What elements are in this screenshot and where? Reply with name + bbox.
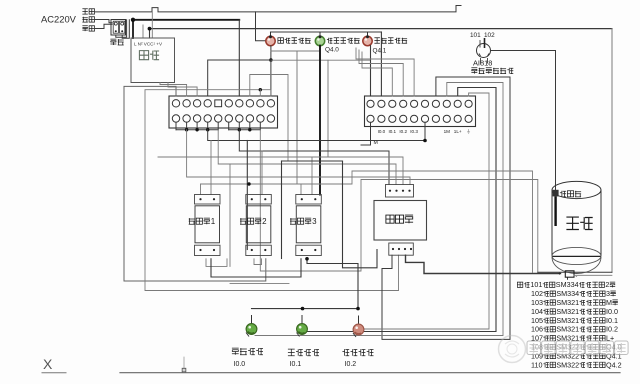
relay KA1 bottom terminal box: [195, 245, 221, 255]
label AI818: [473, 59, 492, 68]
wire strip1 drop x176: [175, 122, 177, 130]
wire breaker out 2: [122, 20, 129, 38]
wire strip1 drop x207.7: [207, 122, 209, 130]
signature underline: [42, 372, 66, 374]
wire ground top run: [96, 6, 462, 12]
wire KA1 to KA3 bottom: [211, 259, 301, 277]
svg-text:SM322: SM322: [556, 360, 579, 369]
power supply terminal labels: [134, 42, 163, 47]
note line 7: [531, 334, 614, 343]
wire KA3 to button bus: [307, 259, 358, 309]
terminal strip XT1 body: [169, 96, 278, 128]
wire y51 link to run lamp: [271, 50, 320, 52]
label 启动按钮: [232, 348, 263, 355]
node KA3 bottom: [305, 257, 309, 261]
node t9 riser junction: [259, 88, 262, 91]
route strip2-t9 to stop button: [306, 88, 496, 332]
bottom border tick: [183, 357, 185, 373]
wire strip1 dropB x228.7: [228, 122, 230, 130]
route I0.2 strip2-t7: [382, 77, 510, 339]
svg-text:1L+: 1L+: [454, 129, 462, 134]
note line 1: [517, 280, 615, 289]
indicator lamp HL1 power (red): [266, 32, 275, 46]
note line 5: [531, 316, 618, 325]
svg-text:I0.0: I0.0: [606, 307, 618, 316]
relay KA2 top terminal box: [246, 195, 271, 205]
relay KA1 body: [195, 206, 220, 243]
wire relay2 bottom small loop: [254, 259, 262, 265]
svg-text:AC220V: AC220V: [41, 14, 77, 25]
wire node down to strip1 t10: [270, 60, 272, 96]
boiler enclosure bottom: [538, 271, 612, 273]
heater element: [558, 271, 578, 280]
svg-text:SM321: SM321: [556, 307, 579, 316]
label 温度变送仪表: [471, 68, 513, 74]
labels 101 102: [470, 32, 495, 39]
terminal strip XT2 top row terminals: [367, 100, 472, 107]
note line 2: [531, 289, 616, 298]
svg-text:103: 103: [531, 298, 543, 307]
wire KA1 small loop: [206, 259, 227, 267]
relay KA2 bottom terminal dots: [251, 249, 267, 251]
svg-text:SM334: SM334: [556, 289, 579, 298]
node strip1 busB x249.8: [248, 128, 251, 131]
note line 4: [531, 307, 618, 316]
note line 9: [531, 351, 622, 360]
label I0.0: [234, 361, 246, 368]
wire strip1 bus A: [176, 129, 218, 131]
svg-text:102: 102: [484, 32, 495, 39]
svg-text:102: 102: [531, 289, 543, 298]
svg-text:1: 1: [211, 217, 216, 226]
svg-text:I0.2: I0.2: [606, 325, 618, 334]
node H1 t6: [423, 139, 427, 143]
svg-text:I0.2: I0.2: [345, 361, 357, 368]
svg-text:⏚: ⏚: [466, 128, 471, 134]
svg-text:SM334: SM334: [556, 280, 579, 289]
label 锅炉: [566, 217, 592, 229]
svg-text:+: +: [558, 272, 561, 278]
note line 10: [531, 360, 622, 369]
wire H6 coil bus: [201, 171, 533, 272]
note line 3: [531, 298, 618, 307]
svg-text:Q4.2: Q4.2: [606, 360, 622, 369]
wire big loop B (t10): [145, 90, 399, 291]
node neutral junction: [148, 27, 152, 31]
svg-text:I0.1: I0.1: [606, 316, 618, 325]
label Q4.1: [373, 48, 387, 55]
wire lamp top bus: [271, 31, 382, 33]
controller bottom terminal dots: [392, 248, 412, 250]
svg-text:X: X: [43, 356, 53, 372]
wire controller to heater: [406, 255, 561, 273]
relay KA2 bottom terminal box: [246, 245, 271, 255]
label power supply 电源: [139, 51, 159, 60]
svg-text:106: 106: [531, 325, 543, 334]
relay KA2 top terminal dots: [251, 198, 267, 200]
svg-text:SM321: SM321: [556, 325, 579, 334]
node strip1 busA x186.6: [185, 128, 188, 131]
wire power lamp bottom: [270, 46, 272, 60]
wire t9 riser: [259, 90, 261, 96]
relay KA2 body: [246, 206, 270, 243]
node strip1 busA x207.7: [206, 128, 209, 131]
label Q4.0: [325, 47, 339, 54]
wire dark L1 vertical: [281, 161, 283, 259]
route stub to strip2 t3: [362, 52, 392, 96]
relay KA1 top terminal dots: [199, 198, 215, 200]
wire strip2 t1 M stub: [361, 122, 371, 145]
wire power +V to strip1 t2: [160, 83, 187, 97]
wire dark L2 route: [343, 161, 378, 268]
node H6 relay2: [247, 182, 250, 185]
breaker pole 2: [120, 21, 125, 33]
svg-text:101: 101: [470, 32, 481, 39]
node power lamp neutral: [269, 58, 273, 62]
wire H1 busA to strip2 t6: [208, 122, 425, 140]
controller top terminal dots: [389, 190, 411, 192]
svg-text:-: -: [576, 274, 578, 280]
route stub to strip2 t4: [359, 50, 403, 96]
terminal strip XT1 top row terminals: [172, 100, 274, 107]
node strip1 busB x239.3: [238, 128, 241, 131]
svg-text:SM321: SM321: [556, 316, 579, 325]
wire live feed to strip1 t7: [238, 20, 240, 96]
label AC220V: [41, 14, 77, 25]
wire H6 drop relay3: [300, 184, 302, 195]
wire H4 drop to relay1 loop: [229, 164, 231, 266]
pushbutton SB1 start (green): [246, 315, 257, 337]
wire dark drop to relay2: [246, 141, 248, 250]
relay KA3 body: [296, 206, 321, 243]
label I0.1: [290, 361, 302, 368]
relay KA3 top terminal dots: [301, 198, 317, 200]
wire live bus into power supply: [132, 20, 134, 38]
pushbutton SB3 reset (red): [353, 316, 364, 338]
note line 8: [531, 343, 622, 352]
wire neutral into power supply: [149, 29, 151, 38]
transducer AI818 circle: [477, 38, 491, 58]
circuit breaker QF body: [111, 20, 126, 36]
label 复位按钮: [342, 349, 373, 356]
svg-text:SM321: SM321: [556, 298, 579, 307]
label 继电器2: [240, 217, 267, 226]
wire heater return to neutral: [574, 274, 612, 276]
label 继电器1: [189, 217, 216, 226]
wire node line extension right: [271, 59, 371, 61]
node button bus reset: [356, 307, 360, 311]
label 报警指示灯: [374, 38, 407, 43]
controller top terminal box: [386, 185, 414, 198]
wire alarm lamp to strip2 t1: [370, 46, 372, 96]
wire stub under relays: [230, 283, 289, 285]
wire strip1 dropB x239.3: [238, 122, 240, 130]
wire breaker out 1: [116, 20, 127, 38]
terminal strip XT2 body: [365, 96, 476, 127]
relay KA3 bottom terminal dots: [301, 249, 317, 251]
note line 6: [531, 325, 618, 334]
label neutral wire 零线: [82, 17, 94, 22]
watermark text: [527, 341, 628, 355]
controller bottom terminal box: [389, 243, 414, 255]
wire live bus horizontal: [133, 19, 239, 21]
wire big loop A (t1): [124, 86, 266, 281]
wire node to strip1 t4 riser: [208, 60, 271, 96]
node live junction: [131, 18, 135, 22]
svg-text:Q4.0: Q4.0: [325, 47, 339, 54]
svg-text:1M: 1M: [444, 129, 451, 134]
wire y51 drop to relay3 feed: [296, 51, 298, 184]
power supply unit box: [131, 38, 175, 83]
signature X: [43, 356, 53, 372]
svg-text:I0.1: I0.1: [388, 129, 396, 134]
relay KA3 top terminal box: [296, 195, 322, 205]
svg-text:110: 110: [531, 360, 542, 369]
thermocouple probe: [553, 190, 559, 226]
svg-text:101: 101: [530, 280, 542, 289]
wire AI818 to thermocouple: [491, 51, 555, 190]
controller body: [374, 201, 427, 241]
svg-text:105: 105: [531, 316, 543, 325]
label 热电偶: [560, 191, 581, 197]
route stub to strip2 t5: [356, 48, 414, 96]
relay KA3 bottom terminal box: [296, 245, 322, 255]
wire strip1 bus B: [229, 129, 261, 131]
wire strip1 t9 long drop to boiler box: [260, 130, 538, 272]
bottom border: [120, 372, 620, 374]
svg-text:2: 2: [605, 280, 609, 289]
wire node line drop x328: [327, 60, 329, 157]
svg-text:AI818: AI818: [473, 59, 492, 68]
wire neutral into breaker: [96, 20, 113, 23]
wire drop to power supply terminal: [142, 25, 144, 38]
svg-text:Q4.1: Q4.1: [373, 48, 387, 55]
wire t8 riser bend to L1: [250, 75, 288, 162]
terminal strip XT1 bottom row terminals: [172, 115, 274, 122]
wire H3 drop relay3: [311, 157, 313, 195]
wire live into breaker: [96, 24, 113, 28]
svg-text:3: 3: [312, 217, 317, 226]
indicator lamp HL2 run (green): [315, 32, 324, 46]
wire H2 busB to controller t1: [239, 130, 389, 185]
node button bus stop: [301, 307, 305, 311]
wire button bus: [252, 308, 359, 310]
svg-text:L N² VCC¹ +V: L N² VCC¹ +V: [134, 42, 163, 47]
svg-text:I0.3: I0.3: [410, 129, 418, 134]
svg-text:M: M: [606, 298, 612, 307]
wire H2 drop relay2: [261, 151, 263, 195]
svg-text:I0.0: I0.0: [234, 361, 246, 368]
svg-text:2: 2: [262, 217, 267, 226]
svg-text:104: 104: [531, 307, 543, 316]
svg-text:I0.0: I0.0: [378, 129, 386, 134]
label M: [374, 140, 378, 146]
wire H1 drop relay1: [210, 141, 212, 195]
transducer leg 1: [480, 58, 482, 63]
watermark circle stamp: [499, 336, 526, 363]
boiler vessel: [552, 181, 601, 273]
pushbutton SB2 stop (green): [297, 315, 308, 337]
label 继电器3: [290, 217, 317, 226]
wire strip1 drop x186.6: [186, 122, 188, 130]
svg-text:I0.2: I0.2: [399, 129, 407, 134]
svg-text:I0.1: I0.1: [290, 361, 302, 368]
route strip2-t10 to reset button: [363, 93, 489, 329]
wire power -V to strip1 t3: [168, 83, 197, 97]
terminal strip XT2 bottom labels: [378, 128, 471, 134]
bottom border tick square: [182, 368, 186, 372]
wire H4 busA to controller t2: [218, 130, 396, 185]
wire ground drop to power supply PE: [151, 12, 153, 38]
wire H3 stub to controller t3: [158, 157, 403, 185]
breaker pole 1: [113, 21, 118, 33]
svg-text:3: 3: [606, 289, 610, 298]
wire lamp bus end to strip2 t2: [380, 32, 382, 96]
node strip1 busA x197.1: [195, 128, 198, 131]
wire neutral bus horizontal: [150, 28, 613, 30]
wire strip1 dropB x260.3: [259, 122, 261, 130]
wire H5 busA to controller t4: [187, 130, 410, 185]
label 运行指示灯: [327, 38, 360, 43]
transducer leg 2: [487, 58, 489, 63]
label 控制器: [386, 215, 413, 223]
label I0.2: [345, 361, 357, 368]
indicator lamp HL3 alarm (red): [363, 32, 372, 46]
label ground wire 地线: [82, 9, 94, 14]
wire strip1 dropB x249.8: [249, 122, 251, 130]
label 停止按钮: [288, 349, 319, 356]
wire strip1 drop x218.2: [217, 122, 219, 130]
wire dark L1 horizontal: [282, 160, 343, 162]
relay KA1 bottom terminal dots: [199, 249, 215, 251]
route strip2-t8 to btn1: [255, 83, 503, 336]
wire ground drop to lamp: [256, 12, 267, 41]
label live wire 火线: [82, 26, 94, 31]
terminal strip XT2 bottom row terminals: [367, 115, 472, 122]
wire strip1 drop x197.1: [196, 122, 198, 130]
wire run lamp down (thick): [319, 46, 321, 195]
label 电源指示灯: [278, 38, 311, 43]
wire neutral bus right vertical: [611, 29, 613, 273]
relay KA1 top terminal box: [195, 195, 221, 205]
label breaker 火零: [110, 39, 123, 45]
